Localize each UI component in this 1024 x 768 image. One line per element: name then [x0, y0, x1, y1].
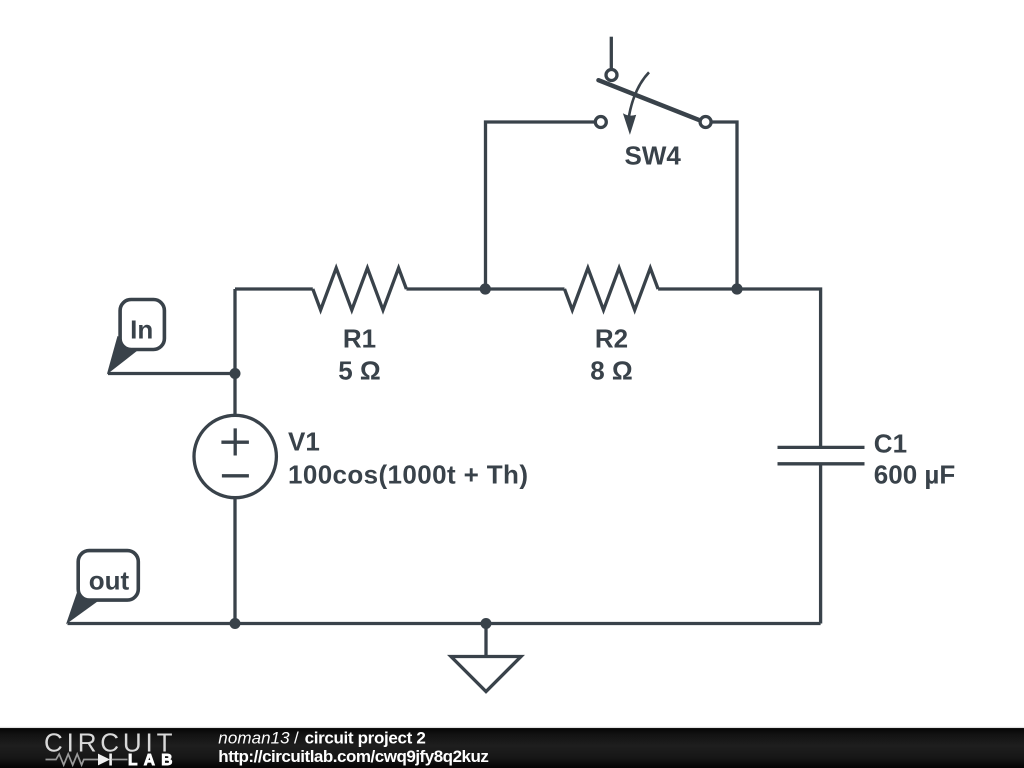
resistor R2	[565, 268, 659, 310]
C1 top plate	[778, 446, 865, 449]
capacitor C1	[778, 447, 865, 463]
switch SW4	[595, 37, 711, 135]
svg-text:In: In	[130, 314, 153, 344]
svg-text:V1: V1	[288, 426, 320, 456]
svg-text:LAB: LAB	[128, 752, 173, 768]
wire: R2 to node C	[658, 287, 737, 290]
svg-text:R2: R2	[595, 324, 628, 354]
wire: C1 bottom lead	[819, 464, 822, 624]
V1 plus sign	[221, 428, 249, 455]
wire: ground stub	[484, 624, 487, 657]
svg-text:C1: C1	[874, 428, 907, 458]
label R1 value	[338, 324, 381, 386]
svg-text:8 Ω: 8 Ω	[590, 356, 633, 386]
node A junction dot	[230, 368, 241, 379]
SW4 top terminal circle	[606, 70, 617, 81]
CircuitLab logo diode bar	[109, 754, 112, 766]
node C junction dot	[731, 283, 742, 294]
resistor R1	[313, 268, 407, 310]
svg-text:http://circuitlab.com/cwq9jfy8: http://circuitlab.com/cwq9jfy8q2kuz	[218, 747, 489, 766]
svg-text:SW4: SW4	[625, 141, 682, 171]
svg-text:circuit project 2: circuit project 2	[305, 729, 426, 748]
wire: R1 to R2 through node B	[406, 287, 564, 290]
V1 minus sign	[222, 474, 249, 477]
SW4 arrowhead	[623, 113, 636, 135]
SW4 lever bar	[599, 80, 700, 120]
svg-text:600 µF: 600 µF	[874, 460, 955, 490]
wire: main horizontal, node A to R1	[235, 287, 313, 290]
svg-text:out: out	[89, 566, 130, 596]
node ground junction dot	[481, 618, 492, 629]
CircuitLab logo diode triangle	[98, 754, 110, 766]
CircuitLab logo resistor squiggle	[46, 754, 98, 765]
CircuitLab logo diode lead	[112, 759, 128, 761]
SW4 right terminal circle	[700, 117, 711, 128]
label V1 value	[288, 426, 528, 489]
svg-text:100cos(1000t + Th): 100cos(1000t + Th)	[288, 460, 528, 490]
svg-text:5 Ω: 5 Ω	[338, 356, 381, 386]
wire: switch loop right riser	[712, 122, 737, 289]
footer bar	[0, 727, 1024, 768]
wire: node C to C1 top corner	[737, 289, 821, 447]
node out junction dot	[230, 618, 241, 629]
svg-text:noman13: noman13	[218, 729, 290, 748]
flag out	[66, 551, 138, 625]
C1 bottom plate	[778, 462, 865, 465]
wire: bottom rail	[68, 622, 821, 625]
wire: left vertical from main node to V1 top	[233, 289, 236, 414]
svg-text:R1: R1	[343, 324, 376, 354]
node B junction dot	[480, 283, 491, 294]
voltage source V1	[194, 415, 276, 497]
label R2 value	[590, 324, 633, 386]
wire: switch loop left riser	[486, 122, 595, 289]
svg-text:/: /	[294, 729, 299, 748]
wire: V1 bottom lead	[233, 499, 236, 624]
wire: In tag lead to node A	[108, 372, 235, 375]
flag In	[107, 300, 165, 375]
ground triangle	[451, 657, 521, 692]
label C1 value	[874, 428, 955, 489]
ground	[451, 624, 521, 692]
SW4 motion arrow arc	[629, 72, 649, 116]
SW4 left terminal circle	[595, 117, 606, 128]
wire: SW4 top throw stub	[610, 37, 613, 69]
